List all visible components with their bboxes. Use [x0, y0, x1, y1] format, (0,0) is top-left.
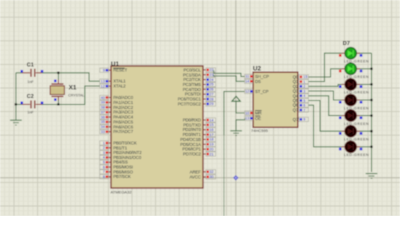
svg-text:29: 29 — [209, 102, 213, 106]
svg-text:7: 7 — [303, 108, 305, 112]
svg-text:3: 3 — [103, 151, 105, 155]
svg-text:15: 15 — [303, 75, 307, 79]
svg-text:PD7/OC2: PD7/OC2 — [183, 152, 202, 157]
svg-text:D7: D7 — [343, 41, 350, 47]
svg-text:36: 36 — [101, 115, 105, 119]
svg-text:5: 5 — [103, 160, 105, 164]
svg-text:38: 38 — [101, 106, 105, 110]
svg-text:ST_CP: ST_CP — [255, 89, 269, 94]
svg-text:X1: X1 — [69, 84, 77, 91]
svg-text:34: 34 — [101, 125, 105, 129]
svg-text:17: 17 — [209, 133, 213, 137]
svg-text:PB7/SCK: PB7/SCK — [113, 174, 131, 179]
svg-text:14: 14 — [209, 118, 213, 122]
svg-text:13: 13 — [245, 117, 249, 121]
svg-text:14: 14 — [245, 80, 249, 84]
svg-text:19: 19 — [209, 143, 213, 147]
svg-text:16: 16 — [209, 128, 213, 132]
svg-text:25: 25 — [209, 83, 213, 87]
svg-text:39: 39 — [101, 101, 105, 105]
svg-text:OE: OE — [255, 116, 261, 121]
svg-text:ATMEGA32: ATMEGA32 — [111, 189, 133, 194]
svg-text:6: 6 — [303, 103, 305, 107]
svg-text:LED-GREEN: LED-GREEN — [344, 75, 369, 79]
svg-text:6: 6 — [103, 165, 105, 169]
svg-text:40: 40 — [101, 96, 105, 100]
svg-text:1nF: 1nF — [27, 80, 34, 84]
svg-text:33: 33 — [101, 130, 105, 134]
svg-text:PA7/ADC7: PA7/ADC7 — [113, 129, 134, 134]
svg-text:74HC595: 74HC595 — [251, 128, 269, 133]
svg-text:8: 8 — [103, 175, 105, 179]
svg-text:9: 9 — [303, 118, 305, 122]
svg-text:1: 1 — [103, 141, 105, 145]
svg-text:32: 32 — [209, 170, 213, 174]
svg-text:PC7/TOSC2: PC7/TOSC2 — [178, 101, 202, 106]
svg-text:3: 3 — [303, 89, 305, 93]
svg-text:10: 10 — [245, 111, 249, 115]
svg-text:30: 30 — [209, 175, 213, 179]
svg-text:C1: C1 — [27, 62, 34, 68]
svg-text:22: 22 — [209, 68, 213, 72]
svg-text:18: 18 — [209, 138, 213, 142]
svg-text:4: 4 — [103, 156, 105, 160]
svg-text:LED-GREEN: LED-GREEN — [344, 138, 369, 142]
svg-text:LED-GREEN: LED-GREEN — [344, 91, 369, 95]
svg-text:26: 26 — [209, 88, 213, 92]
svg-text:DS: DS — [255, 79, 261, 84]
svg-text:28: 28 — [209, 97, 213, 101]
svg-text:2: 2 — [303, 85, 305, 89]
svg-text:15: 15 — [209, 123, 213, 127]
svg-text:23: 23 — [209, 73, 213, 77]
svg-text:MR: MR — [255, 111, 262, 116]
svg-text:1: 1 — [303, 80, 305, 84]
svg-text:11: 11 — [245, 75, 249, 79]
svg-text:5: 5 — [303, 99, 305, 103]
svg-text:9: 9 — [103, 68, 105, 72]
svg-text:U2: U2 — [253, 66, 262, 73]
svg-text:35: 35 — [101, 120, 105, 124]
svg-text:LED-GREEN: LED-GREEN — [344, 106, 369, 110]
svg-text:AVCC: AVCC — [189, 174, 200, 179]
svg-text:LED-GREEN: LED-GREEN — [344, 122, 369, 126]
svg-text:20: 20 — [209, 147, 213, 151]
svg-text:13: 13 — [101, 79, 105, 83]
svg-text:CRYSTAL: CRYSTAL — [68, 93, 84, 97]
svg-text:12: 12 — [101, 84, 105, 88]
svg-text:7: 7 — [103, 170, 105, 174]
svg-text:LED-GREEN: LED-GREEN — [344, 153, 369, 157]
svg-text:XTAL2: XTAL2 — [113, 84, 126, 89]
svg-text:21: 21 — [209, 152, 213, 156]
svg-text:Q7': Q7' — [293, 117, 300, 122]
svg-text:24: 24 — [209, 78, 213, 82]
svg-text:2: 2 — [103, 146, 105, 150]
svg-text:Q7: Q7 — [293, 108, 299, 113]
svg-text:37: 37 — [101, 110, 105, 114]
svg-text:12: 12 — [245, 90, 249, 94]
svg-text:4: 4 — [303, 94, 305, 98]
svg-text:C2: C2 — [27, 94, 34, 100]
svg-text:1nF: 1nF — [27, 111, 34, 115]
svg-text:LED-GREEN: LED-GREEN — [344, 60, 369, 64]
svg-text:27: 27 — [209, 92, 213, 96]
